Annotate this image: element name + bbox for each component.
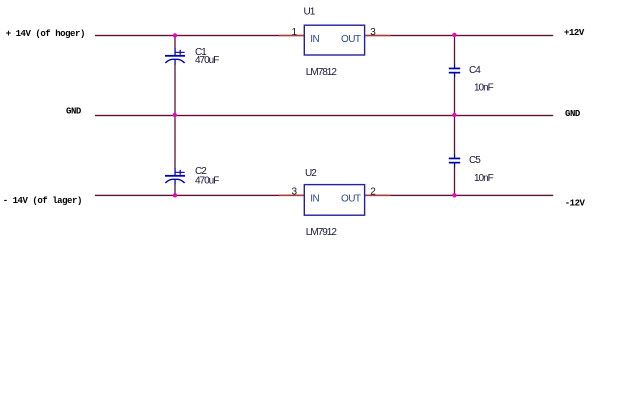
svg-text:10nF: 10nF [474,173,494,184]
svg-text:1: 1 [292,27,298,38]
svg-text:C5: C5 [469,155,481,166]
svg-text:+ 14V (of hoger): + 14V (of hoger) [6,29,85,39]
svg-text:+12V: +12V [564,28,585,38]
svg-text:LM7912: LM7912 [306,227,338,238]
svg-text:IN: IN [310,34,319,45]
svg-text:OUT: OUT [341,193,361,204]
svg-text:U1: U1 [304,7,316,18]
svg-text:GND: GND [66,107,82,117]
svg-text:- 14V (of lager): - 14V (of lager) [3,196,82,206]
svg-text:GND: GND [565,109,581,119]
svg-text:470uF: 470uF [195,55,219,66]
svg-text:C4: C4 [469,65,481,76]
svg-text:IN: IN [310,193,319,204]
svg-text:U2: U2 [305,168,317,179]
svg-text:-12V: -12V [565,199,586,209]
svg-text:OUT: OUT [341,34,361,45]
svg-text:10nF: 10nF [474,83,494,94]
svg-text:3: 3 [370,27,376,38]
svg-text:470uF: 470uF [195,176,219,187]
svg-text:LM7812: LM7812 [306,67,338,78]
